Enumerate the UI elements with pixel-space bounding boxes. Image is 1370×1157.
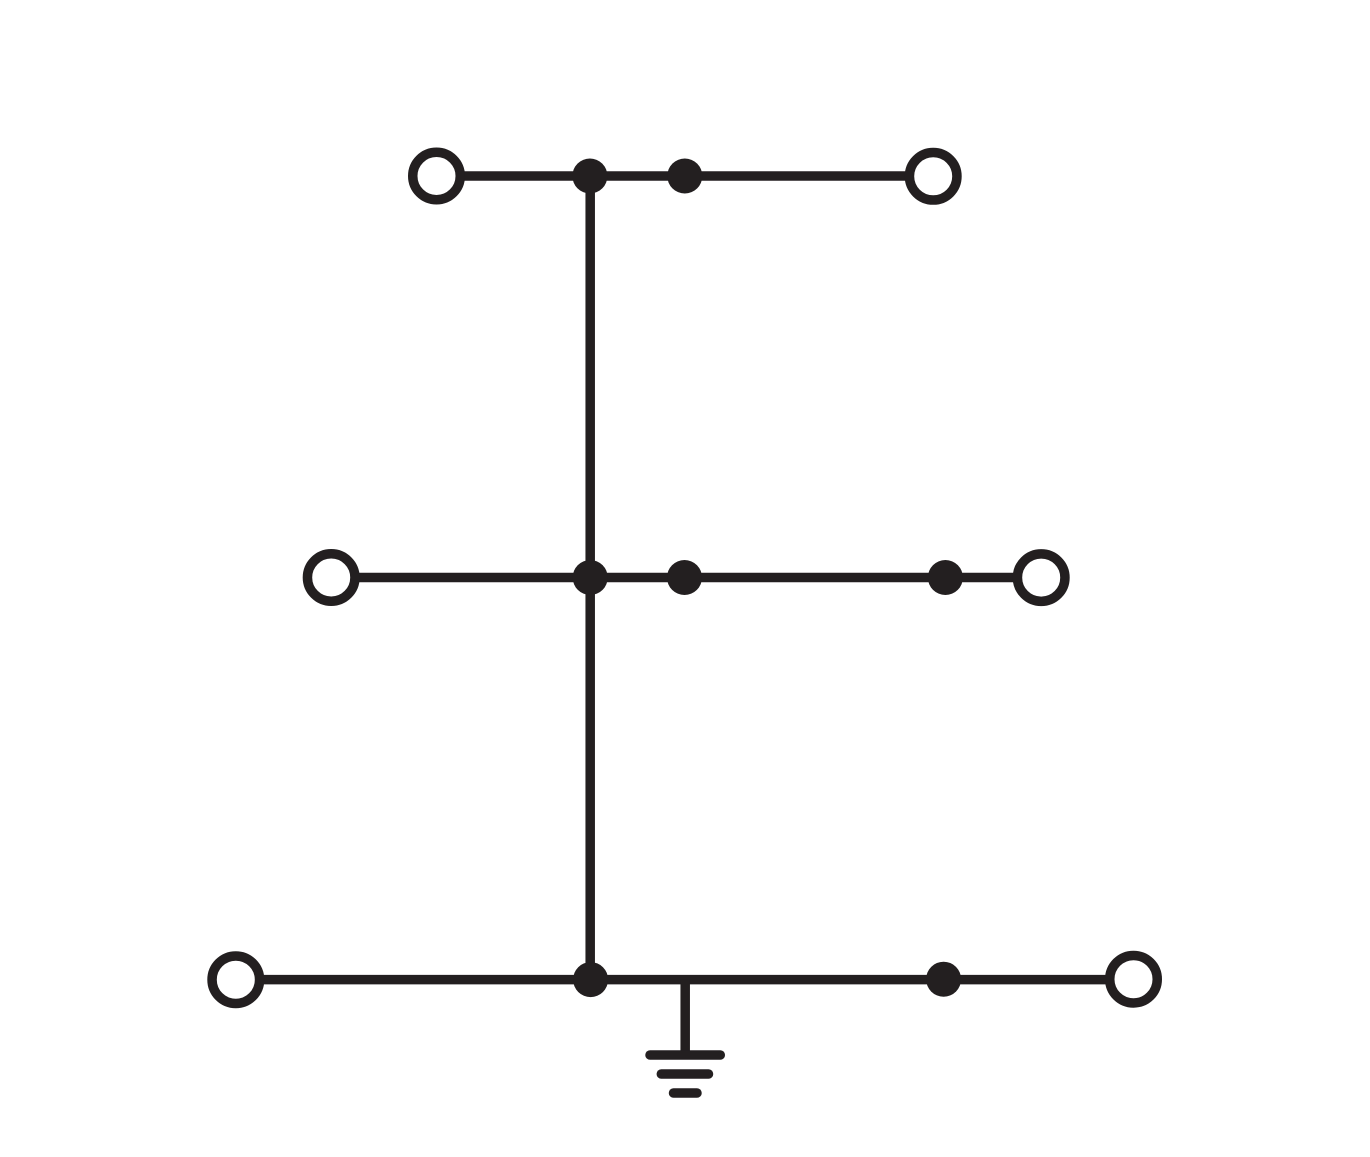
junction: bottom level / vertical bus — [573, 962, 608, 997]
junction: top level / vertical bus — [572, 159, 607, 194]
ground: bottom bar — [674, 1088, 698, 1098]
junction: top level clamp point — [667, 159, 702, 194]
terminal: bottom-left open contact — [212, 956, 259, 1004]
terminal: top-right open contact — [909, 153, 957, 201]
ground: middle bar — [661, 1069, 708, 1079]
terminal: middle-left open contact — [307, 554, 355, 602]
ground: stem from bottom level — [680, 980, 690, 1055]
terminal: bottom-right open contact — [1110, 955, 1158, 1003]
junction: middle level / vertical bus — [573, 560, 608, 595]
wire: vertical bus joining all three levels — [585, 176, 595, 980]
wire: bottom level conductor — [263, 975, 1106, 985]
junction: bottom level clamp point — [926, 962, 961, 997]
wire: top level conductor — [463, 171, 906, 181]
junction: middle level right clamp point — [928, 560, 963, 595]
terminal: top-left open contact — [413, 152, 461, 200]
terminal: middle-right open contact — [1017, 554, 1065, 602]
wire: middle level conductor — [358, 573, 1014, 583]
ground: top bar — [650, 1050, 720, 1060]
junction: middle level clamp point — [667, 560, 702, 595]
